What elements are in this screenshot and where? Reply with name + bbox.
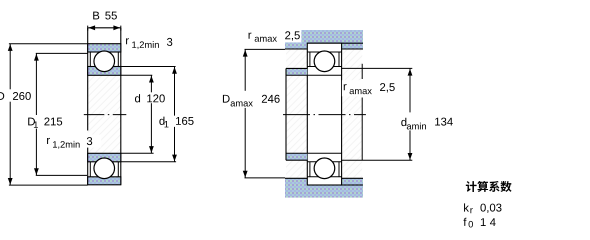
label ramax 2,5 upper (249, 29, 302, 42)
dimension d1: extension lines (121, 67, 176, 162)
dimension d: extension lines (121, 75, 154, 153)
dimension Da: line and arrows (243, 49, 248, 178)
dimension d1: line and arrows (172, 67, 177, 162)
label D 260 (0, 92, 31, 100)
dimension d: line and arrows (149, 75, 154, 153)
label Damax 246 (223, 95, 280, 107)
left view: ring gap faces lower (90, 162, 118, 177)
housing section top (right view) (285, 30, 363, 49)
dimension Da: extension lines (245, 49, 286, 178)
ball lower (left view) (94, 158, 115, 179)
label d1 165 (159, 117, 193, 128)
ball upper (left view) (94, 51, 115, 72)
label damin 134 (401, 118, 453, 130)
label B 55 (93, 12, 117, 20)
inner ring lower half (left view) (88, 153, 121, 162)
ball upper (right view) (314, 51, 335, 72)
label kr 0,03 (464, 203, 501, 213)
shaft end edge (361, 64, 363, 160)
bearing section (right view) (307, 43, 341, 185)
left view: bearing side faces (outline) (88, 28, 121, 185)
axis centerline (right view) (283, 114, 366, 116)
right view: shaft hatch area (286, 49, 362, 178)
label f0 14 (463, 218, 495, 228)
left view: bore hatch area (88, 75, 121, 153)
axis centerline (left view) (84, 114, 127, 116)
ball lower (right view) (314, 158, 335, 179)
right view: ring boundary lines (307, 52, 341, 177)
label r12min 3 lower (47, 135, 101, 149)
dimension D1: extension lines (36, 53, 88, 175)
dimension D: extension lines (9, 44, 88, 185)
outer ring upper half (left view) (88, 44, 121, 52)
housing section bottom (right view) (285, 178, 363, 197)
label D1 215 (28, 118, 62, 128)
left view: ring gap faces upper (90, 52, 118, 67)
shaft shoulder upper (right view) (286, 68, 307, 75)
label r12min 3 upper (126, 38, 172, 49)
dimension D1: line and arrows (34, 53, 39, 175)
inner ring upper half (left view) (88, 67, 121, 76)
label d 120 (135, 94, 165, 102)
dimension da: extension lines (342, 68, 413, 160)
dimension B: extension ticks (88, 26, 121, 31)
heading 计算系数 (calculation factors) (466, 181, 512, 192)
shaft shoulder lower (right view) (286, 153, 307, 160)
shaft shoulder face (285, 68, 287, 160)
label ramax 2,5 middle (342, 80, 396, 96)
dimension B: line and arrows (88, 25, 120, 30)
dimension da: line and arrows (408, 68, 413, 160)
outer ring lower half (left view) (88, 177, 121, 185)
right view: ring gap faces (310, 52, 339, 177)
dimension D: line and arrows (8, 44, 13, 185)
